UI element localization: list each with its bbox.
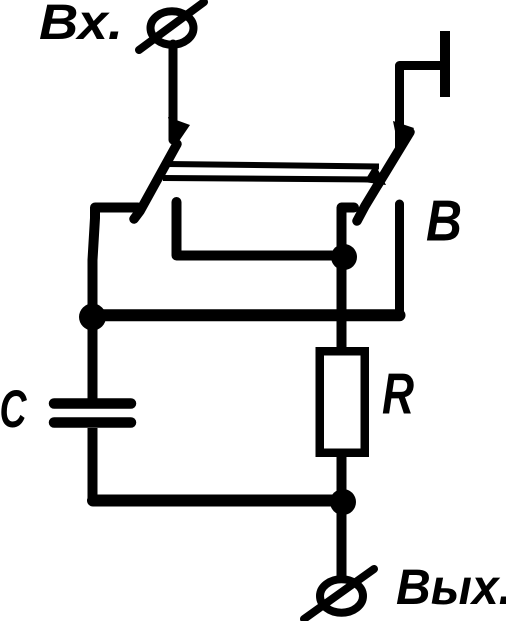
switch B pole 1 lever (134, 144, 177, 219)
svg-text:Вх.: Вх. (39, 0, 123, 50)
mechanical link upper line (167, 164, 379, 167)
switch B pole 2 second contact stub (395, 204, 404, 315)
wire node to output (337, 512, 347, 578)
switch B pole 1 second contact stub (177, 202, 341, 256)
wire resistor bottom (337, 453, 347, 494)
switch B pole 2 lever (357, 132, 410, 221)
wire capacitor bottom (88, 428, 98, 501)
mechanical link right wedge (364, 164, 386, 185)
wire left contact to bus and capacitor top (93, 208, 139, 400)
input terminal circle (151, 11, 194, 44)
capacitor C top plate (54, 398, 131, 409)
capacitor C bottom plate (54, 417, 131, 428)
mechanical link lower line (163, 178, 375, 180)
wire bottom horizontal (93, 495, 343, 507)
wire node to resistor top (337, 257, 347, 351)
svg-text:В: В (426, 189, 462, 254)
output terminal circle (320, 579, 363, 612)
node middle junction dot (331, 244, 357, 270)
output terminal slash (304, 569, 374, 619)
svg-text:R: R (382, 362, 414, 427)
wire input vertical (169, 44, 178, 140)
node bottom junction dot (330, 489, 356, 515)
top right terminal bar (440, 31, 450, 97)
switch B pole 2 contact wire to node (342, 208, 355, 251)
arrow on right wire (393, 121, 414, 151)
node left junction dot (79, 304, 106, 331)
input terminal slash (139, 2, 204, 50)
svg-text:Вых.: Вых. (396, 559, 506, 615)
svg-text:C: C (0, 380, 27, 439)
wire top right (400, 66, 442, 149)
wire long horizontal bus (93, 309, 400, 321)
resistor R body (320, 351, 365, 453)
arrow on input wire (168, 117, 190, 147)
